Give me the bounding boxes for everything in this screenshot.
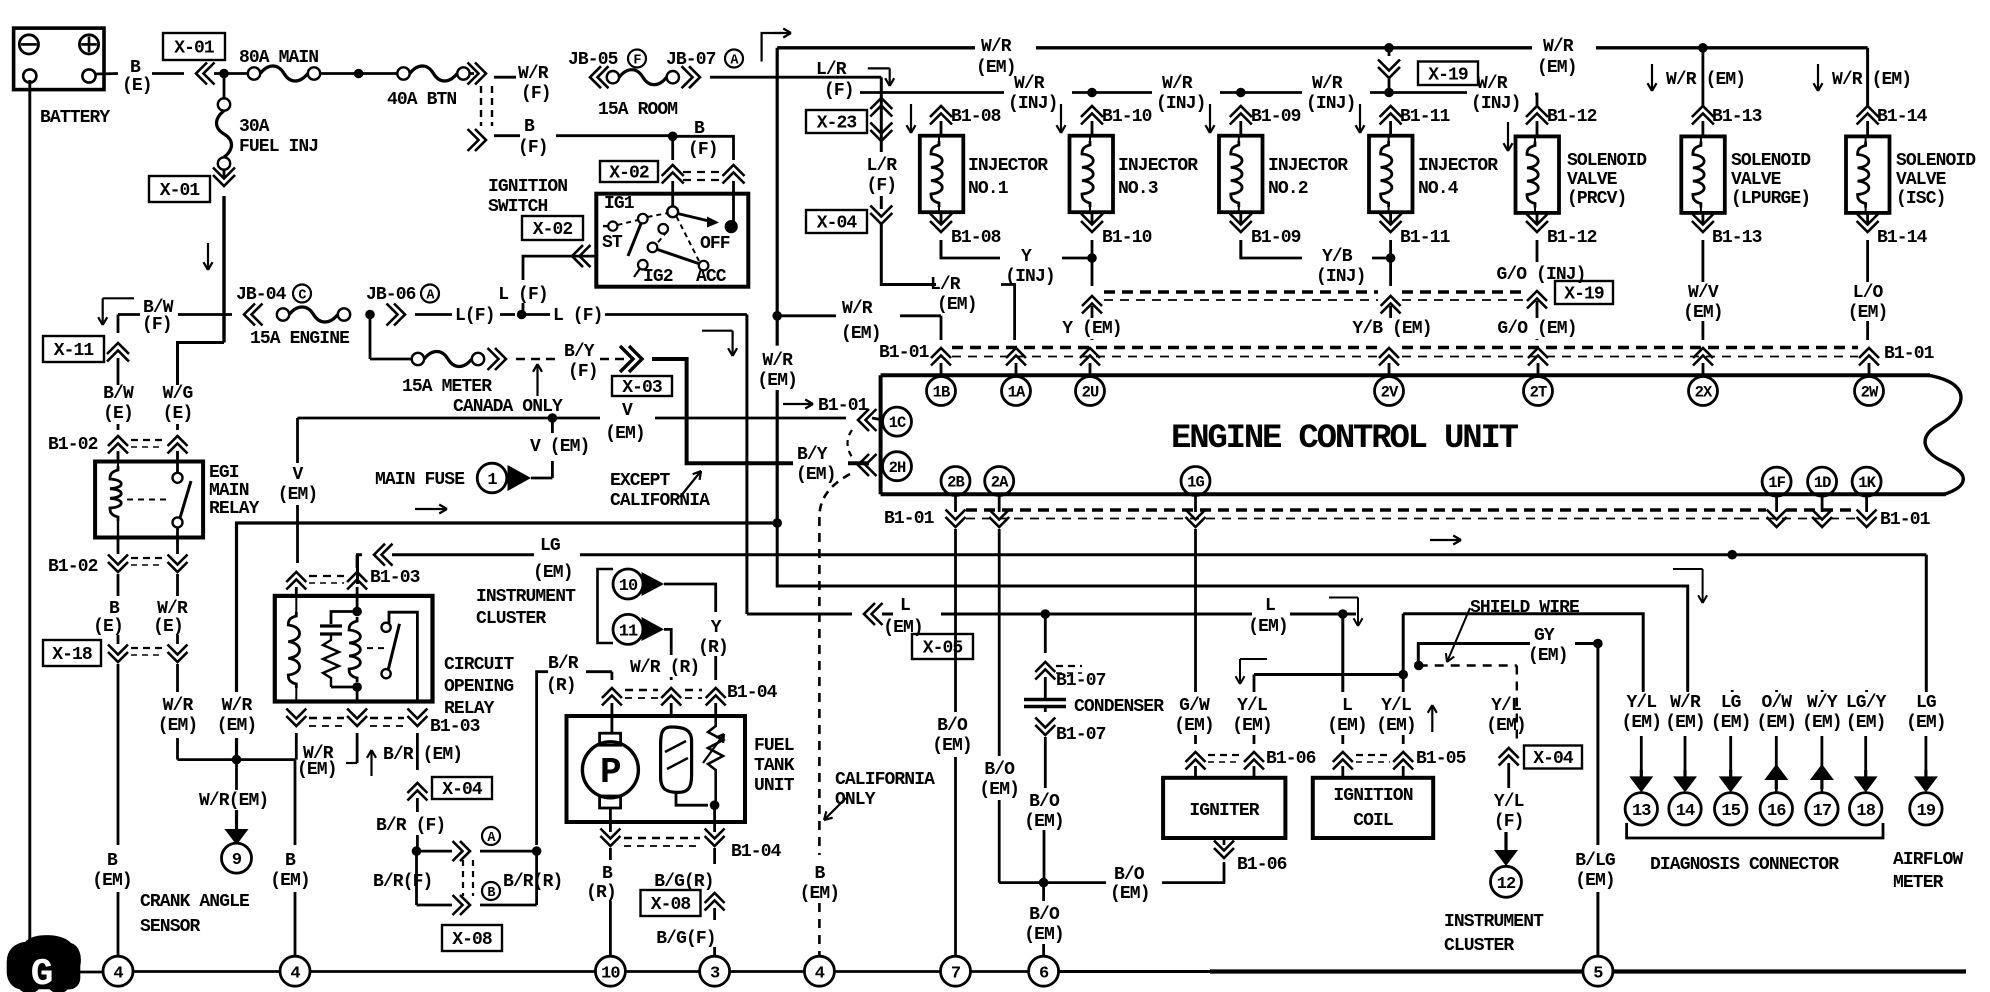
- switch OFF position: [707, 217, 719, 228]
- connector chevron B1-01 top pin: [1528, 348, 1548, 358]
- svg-text:(F): (F): [518, 138, 548, 158]
- crank angle sensor circle 9: [222, 843, 252, 873]
- svg-text:O/W: O/W: [1761, 693, 1792, 713]
- pin 1D: [1808, 467, 1837, 496]
- wire B/O to circle 6: [1042, 883, 1045, 901]
- connector X-08 left: [442, 925, 502, 951]
- wire relay to ground 4: [294, 760, 297, 845]
- svg-text:(EM): (EM): [1756, 713, 1796, 733]
- svg-text:(EM): (EM): [1174, 716, 1214, 736]
- svg-text:B1-09: B1-09: [1251, 107, 1301, 127]
- dashed shield wire: [1419, 664, 1517, 666]
- svg-text:(EM): (EM): [757, 371, 797, 391]
- diagnosis circle 19: [1910, 793, 1942, 825]
- wire B(E): [117, 574, 120, 596]
- svg-text:W/R: W/R: [1312, 74, 1343, 94]
- svg-text:B/W: B/W: [103, 384, 134, 404]
- svg-text:X-23: X-23: [817, 114, 857, 134]
- svg-text:MAIN: MAIN: [209, 481, 249, 501]
- wire L(EM) bus: [747, 613, 852, 616]
- svg-text:L(F): L(F): [455, 306, 495, 326]
- svg-text:LG: LG: [1916, 693, 1936, 713]
- wire Y(EM) to 2U: [1091, 258, 1094, 286]
- wire B/R lower to connector B: [415, 851, 418, 905]
- wire to diagnosis pin 13: [1642, 690, 1645, 692]
- svg-text:Y/B (EM): Y/B (EM): [1352, 319, 1431, 339]
- svg-text:15A METER: 15A METER: [402, 377, 492, 397]
- svg-text:F: F: [633, 54, 641, 69]
- wire Y(R): [664, 584, 716, 612]
- wire W/R(EM) to 1B: [777, 314, 836, 317]
- svg-text:B/R (EM): B/R (EM): [383, 745, 462, 765]
- pin 1C: [883, 407, 912, 436]
- connector arrow to 9: [235, 810, 238, 830]
- wire B/LG(EM) to circle 5: [1596, 644, 1599, 846]
- svg-text:FUEL INJ: FUEL INJ: [239, 137, 318, 157]
- wire Y(INJ) bus: [941, 240, 1000, 258]
- node W/R bus split: [772, 518, 782, 528]
- svg-text:Y: Y: [1021, 247, 1032, 267]
- svg-text:(EM): (EM): [1024, 812, 1064, 832]
- node LG to diagnosis 15: [1727, 550, 1737, 560]
- svg-text:X-11: X-11: [54, 341, 95, 361]
- svg-text:B1-14: B1-14: [1877, 228, 1928, 248]
- diagnosis circle 13: [1625, 793, 1657, 825]
- svg-text:(EM): (EM): [1665, 713, 1705, 733]
- svg-text:B/R(R): B/R(R): [503, 872, 562, 892]
- relay coil 2: [349, 617, 360, 682]
- connector chevron B1-01 top pin: [1859, 348, 1879, 358]
- connector chevron B1-01 top pin: [1006, 348, 1026, 358]
- svg-text:W/R: W/R: [1162, 74, 1193, 94]
- svg-text:W/R: W/R: [1670, 693, 1701, 713]
- fuel level sender: [661, 727, 692, 792]
- connector chevron B1-01 top pin: [931, 348, 951, 358]
- node Y junction: [1087, 253, 1097, 263]
- svg-text:X-03: X-03: [622, 378, 662, 398]
- svg-text:CALIFORNIA: CALIFORNIA: [835, 770, 935, 790]
- wire L/R(F) X-23 column: [880, 77, 883, 152]
- svg-text:(F): (F): [521, 84, 551, 104]
- svg-text:NO.1: NO.1: [968, 179, 1009, 199]
- svg-text:EXCEPT: EXCEPT: [610, 471, 671, 491]
- connector chevron 1C: [858, 409, 869, 431]
- svg-text:W/R: W/R: [157, 599, 188, 619]
- ground circle 10: [595, 956, 625, 986]
- connector chevron: [244, 304, 255, 326]
- svg-text:40A BTN: 40A BTN: [387, 90, 456, 110]
- svg-text:B/O: B/O: [937, 716, 968, 736]
- wire W/R(E): [176, 574, 179, 596]
- wire 30A fuel inj down to EGI W/G: [222, 196, 225, 343]
- svg-text:B1-11: B1-11: [1400, 107, 1451, 127]
- ground bus wire: [80, 971, 102, 974]
- wire L/R(EM) to pin 1A: [881, 224, 936, 285]
- relay switch: [382, 623, 391, 632]
- connector chevron B1 bottom B1-09: [1239, 212, 1242, 225]
- svg-text:B/Y: B/Y: [797, 445, 828, 465]
- svg-text:Y: Y: [711, 618, 722, 638]
- ground circle 4 a: [103, 956, 133, 986]
- svg-text:IGNITION: IGNITION: [488, 177, 567, 197]
- arrow up Y/L: [1431, 705, 1433, 732]
- svg-text:G/W: G/W: [1179, 696, 1210, 716]
- svg-text:Y/L: Y/L: [1626, 693, 1656, 713]
- svg-text:B/O: B/O: [1114, 865, 1145, 885]
- svg-text:(EM): (EM): [92, 871, 132, 891]
- svg-text:30A: 30A: [239, 117, 270, 137]
- svg-text:(INJ): (INJ): [1156, 94, 1206, 114]
- svg-text:W/R (R): W/R (R): [630, 658, 699, 678]
- connector chevrons B1-06 top: [1186, 752, 1206, 762]
- connector chevron B1-01 bottom pin: [1186, 517, 1206, 527]
- svg-text:W/R(EM): W/R(EM): [199, 791, 268, 811]
- connector chevron B1 top B1-11: [1380, 106, 1402, 117]
- svg-text:(EM): (EM): [1575, 871, 1615, 891]
- connector circle 11: [613, 614, 643, 644]
- arrow hook right bus: [1673, 568, 1703, 570]
- svg-text:SOLENOID: SOLENOID: [1731, 151, 1811, 171]
- switch ST terminal: [608, 222, 617, 231]
- igniter box: [1163, 778, 1285, 838]
- svg-text:VALVE: VALVE: [1567, 170, 1618, 190]
- connector X-23: [806, 110, 867, 133]
- svg-text:W/G: W/G: [163, 384, 193, 404]
- svg-text:INJECTOR: INJECTOR: [1418, 156, 1498, 176]
- svg-text:FUEL: FUEL: [754, 736, 794, 756]
- svg-text:(EM): (EM): [976, 58, 1016, 78]
- pin 2A: [985, 467, 1014, 496]
- svg-text:1F: 1F: [1768, 474, 1785, 492]
- svg-text:(EM): (EM): [1906, 713, 1946, 733]
- dashed california branch from 2H: [819, 474, 850, 517]
- svg-text:19: 19: [1917, 802, 1936, 821]
- svg-text:B/R (F): B/R (F): [376, 816, 445, 836]
- svg-text:W/Y: W/Y: [1807, 693, 1838, 713]
- node X-19 branch: [1384, 43, 1394, 53]
- svg-text:CRANK ANGLE: CRANK ANGLE: [140, 892, 250, 912]
- wire W/R(EM) relay middle down: [356, 733, 359, 763]
- svg-text:1K: 1K: [1858, 474, 1876, 492]
- node W/R junction at L/F line: [772, 311, 782, 321]
- connector chevron B1-01 top pin: [1693, 348, 1713, 358]
- node B/R junction right: [532, 846, 542, 856]
- connector arrow diagnosis 16: [1775, 779, 1778, 789]
- svg-text:W/R: W/R: [762, 351, 793, 371]
- dashed wire B(EM) california only: [818, 517, 821, 855]
- svg-text:B1-12: B1-12: [1547, 228, 1597, 248]
- svg-text:(INJ): (INJ): [1471, 94, 1521, 114]
- arrow continuation hook L/R: [868, 67, 890, 69]
- svg-text:G: G: [31, 953, 54, 992]
- node GY junction: [1593, 639, 1603, 649]
- switch lower-left contact: [638, 260, 648, 270]
- svg-text:Y (EM): Y (EM): [1062, 319, 1121, 339]
- diagnosis circle 15: [1715, 793, 1747, 825]
- svg-text:2X: 2X: [1695, 384, 1713, 402]
- svg-text:2H: 2H: [889, 459, 906, 477]
- svg-text:B: B: [107, 851, 118, 871]
- svg-text:INSTRUMENT: INSTRUMENT: [1444, 912, 1544, 932]
- EGI main relay box: [95, 462, 203, 538]
- pin 1F: [1762, 467, 1791, 496]
- svg-text:GY: GY: [1534, 626, 1555, 646]
- svg-text:B: B: [130, 58, 141, 78]
- node B/R junction A: [412, 846, 422, 856]
- svg-text:(F): (F): [568, 362, 598, 382]
- connector X-11: [43, 336, 104, 362]
- switch blade ST: [628, 224, 641, 257]
- fuse 15A ROOM: [607, 71, 619, 83]
- svg-text:(ISC): (ISC): [1896, 189, 1946, 209]
- connector chevron B1-01 bottom pin: [1857, 517, 1877, 527]
- svg-text:L/R: L/R: [930, 275, 961, 295]
- svg-text:(F): (F): [142, 315, 172, 335]
- pin 2B: [941, 467, 970, 496]
- connector X-19 lower: [1527, 291, 1547, 301]
- svg-text:B1-01: B1-01: [1884, 344, 1935, 364]
- wire B(EM) to ground 4: [117, 664, 120, 845]
- wire LG down to pin 19: [1925, 555, 1928, 690]
- svg-text:VALVE: VALVE: [1896, 170, 1947, 190]
- svg-text:B1-11: B1-11: [1400, 228, 1451, 248]
- svg-text:(EM): (EM): [1248, 617, 1288, 637]
- svg-text:B: B: [109, 599, 120, 619]
- svg-text:2W: 2W: [1861, 384, 1879, 402]
- svg-text:LG/Y: LG/Y: [1846, 693, 1887, 713]
- wire B/O(EM) igniter horizontal: [1044, 881, 1106, 884]
- connector arrow diagnosis 19: [1924, 770, 1927, 777]
- node shield junction: [1414, 661, 1424, 671]
- svg-text:X-18: X-18: [52, 645, 92, 665]
- injector NO.1 box: [920, 136, 964, 213]
- svg-text:B/LG: B/LG: [1575, 851, 1615, 871]
- svg-text:(EM): (EM): [1848, 303, 1888, 323]
- wire 2A to junction B/O(EM): [998, 529, 1001, 756]
- node B(F) junction: [668, 132, 678, 142]
- svg-text:X-08: X-08: [651, 895, 691, 915]
- svg-text:CANADA ONLY: CANADA ONLY: [453, 397, 563, 417]
- svg-text:80A MAIN: 80A MAIN: [239, 48, 318, 68]
- svg-text:W/R: W/R: [1477, 74, 1508, 94]
- svg-text:COIL: COIL: [1353, 811, 1393, 831]
- wire B(R) to circle 10: [609, 848, 612, 860]
- svg-text:(INJ): (INJ): [1306, 94, 1356, 114]
- wire V(EM) vertical through bus: [296, 418, 299, 463]
- svg-text:W/R: W/R: [981, 37, 1012, 57]
- injector NO.2 box: [1219, 136, 1263, 213]
- svg-text:1C: 1C: [889, 414, 906, 432]
- svg-text:METER: METER: [1893, 873, 1944, 893]
- wire 2B to circle 7 B/O(EM): [954, 529, 957, 712]
- svg-text:(R): (R): [586, 883, 616, 903]
- wire B/R(R) from A junction: [537, 672, 548, 845]
- svg-text:(EM): (EM): [278, 485, 318, 505]
- svg-text:B1-01: B1-01: [884, 509, 935, 529]
- svg-text:(EM): (EM): [297, 760, 337, 780]
- down arrow inj4: [1359, 104, 1361, 133]
- wire B/Y(F) dashed: [516, 358, 560, 361]
- node injector2 junction: [1236, 88, 1246, 98]
- diagnosis circle 14: [1669, 793, 1701, 825]
- connector bold chevron except-california: [629, 346, 642, 372]
- wire B/G(R): [713, 848, 716, 864]
- svg-text:B1-01: B1-01: [879, 343, 930, 363]
- arrow hook Y/L igniter: [1240, 658, 1267, 660]
- node L(F) junction: [517, 310, 527, 320]
- wire W/R(EM) bus middle: [237, 523, 778, 692]
- wire V(EM) main: [0, 0, 1, 1]
- wire B(F) to switch: [671, 136, 674, 160]
- svg-text:13: 13: [1632, 802, 1651, 821]
- svg-text:NO.2: NO.2: [1268, 179, 1308, 199]
- connector X-04 B/R: [407, 783, 427, 793]
- svg-text:(E): (E): [163, 404, 193, 424]
- svg-text:(E): (E): [103, 404, 133, 424]
- svg-text:INJECTOR: INJECTOR: [1268, 156, 1348, 176]
- wire B(F) from X-01: [494, 134, 520, 137]
- fuel tank unit box: [567, 716, 746, 822]
- svg-text:14: 14: [1676, 802, 1695, 821]
- svg-text:L/O: L/O: [1853, 283, 1884, 303]
- wire B/Y thick to 2H: [652, 359, 793, 463]
- svg-text:ACC: ACC: [696, 267, 727, 287]
- svg-text:B1-04: B1-04: [727, 683, 778, 703]
- svg-text:W/R: W/R: [1543, 37, 1574, 57]
- svg-text:CLUSTER: CLUSTER: [1444, 936, 1514, 956]
- wire Y/L(EM) igniter: [1253, 675, 1256, 693]
- svg-text:B1-06: B1-06: [1266, 749, 1316, 769]
- svg-text:(EM): (EM): [1232, 716, 1272, 736]
- switch IG2 terminal: [648, 243, 658, 253]
- arrow hook continuation near L(F) corner: [702, 330, 733, 332]
- wire to diagnosis pin 17: [1821, 690, 1824, 692]
- connector chevron B1 bottom B1-11: [1389, 212, 1392, 225]
- svg-text:1D: 1D: [1814, 474, 1831, 492]
- svg-text:CLUSTER: CLUSTER: [476, 609, 546, 629]
- svg-text:NO.3: NO.3: [1118, 179, 1158, 199]
- svg-text:B1-05: B1-05: [1416, 749, 1466, 769]
- pin 2T: [1524, 377, 1553, 406]
- svg-text:B1-01: B1-01: [1880, 510, 1931, 530]
- svg-text:W/R: W/R: [222, 696, 253, 716]
- svg-text:P: P: [600, 752, 621, 793]
- pin 2X: [1689, 377, 1718, 406]
- svg-text:B1-01: B1-01: [818, 396, 869, 416]
- svg-text:MAIN FUSE: MAIN FUSE: [375, 470, 465, 490]
- wire crank angle sensor: [235, 760, 238, 790]
- svg-text:6: 6: [1039, 964, 1049, 983]
- connector A: [417, 850, 453, 853]
- svg-text:IGNITION: IGNITION: [1333, 786, 1412, 806]
- svg-text:(R): (R): [698, 638, 728, 658]
- svg-text:4: 4: [290, 964, 300, 983]
- svg-text:X-08: X-08: [452, 930, 492, 950]
- wire B/W(F): [118, 313, 140, 316]
- svg-text:B: B: [602, 864, 613, 884]
- ground circle 6: [1029, 956, 1059, 986]
- svg-text:B/G(F): B/G(F): [656, 929, 715, 949]
- svg-text:INJECTOR: INJECTOR: [968, 156, 1048, 176]
- svg-text:15A ROOM: 15A ROOM: [598, 100, 677, 120]
- svg-text:(F): (F): [866, 176, 896, 196]
- solenoid valve PRCV: [1526, 106, 1548, 117]
- wire W/R(R): [664, 629, 671, 655]
- connector chevron B1-01 top pin: [1379, 348, 1399, 358]
- svg-text:2U: 2U: [1082, 384, 1099, 402]
- connector chevron B1 top B1-09: [1230, 106, 1252, 117]
- connector X-19 top: [1418, 62, 1478, 86]
- svg-text:B1-02: B1-02: [48, 435, 98, 455]
- svg-text:L/R: L/R: [866, 156, 897, 176]
- switch blade IG2-ACC: [656, 249, 700, 264]
- svg-text:AIRFLOW: AIRFLOW: [1893, 850, 1963, 870]
- svg-text:(EM): (EM): [1486, 716, 1526, 736]
- connector arrow diagnosis 15: [1729, 770, 1732, 777]
- wire B/R(EM) relay right down: [416, 733, 419, 770]
- node LPURGE branch: [1698, 43, 1708, 53]
- node injector3 junction: [1087, 88, 1097, 98]
- svg-text:(EM): (EM): [841, 324, 881, 344]
- svg-text:(EM): (EM): [1327, 716, 1367, 736]
- svg-text:JB-06: JB-06: [366, 285, 416, 305]
- node JB junction: [365, 310, 375, 320]
- svg-text:1: 1: [487, 471, 497, 490]
- svg-text:Y/L: Y/L: [1237, 696, 1267, 716]
- connector arrow diagnosis 14: [1683, 770, 1686, 777]
- svg-text:15A ENGINE: 15A ENGINE: [250, 329, 350, 349]
- svg-text:B/R(F): B/R(F): [373, 872, 432, 892]
- solenoid valve LPURGE: [1692, 106, 1714, 117]
- ground symbol G: [8, 936, 80, 991]
- svg-text:G/O (EM): G/O (EM): [1497, 319, 1576, 339]
- svg-text:(F): (F): [824, 81, 854, 101]
- svg-text:X-02: X-02: [533, 220, 573, 240]
- svg-text:UNIT: UNIT: [754, 776, 795, 796]
- node B/O junction: [1039, 878, 1049, 888]
- arrow B1-01 at 1C: [783, 403, 813, 405]
- switch link dashed: [618, 220, 639, 225]
- wire Y/L(EM) to diagnosis 13: [1402, 614, 1405, 676]
- down arrow inj3: [1060, 104, 1062, 133]
- svg-text:ST: ST: [602, 233, 623, 253]
- ground circle 3: [700, 956, 730, 986]
- main fuse circle 1: [477, 463, 507, 493]
- svg-text:B1-03: B1-03: [370, 568, 420, 588]
- svg-text:B1-02: B1-02: [48, 557, 98, 577]
- svg-text:X-04: X-04: [817, 214, 858, 234]
- svg-text:IG1: IG1: [604, 194, 635, 214]
- svg-text:4: 4: [815, 964, 825, 983]
- svg-text:B/O: B/O: [984, 760, 1015, 780]
- svg-text:B1-08: B1-08: [951, 228, 1001, 248]
- relay capacitor and resistor: [331, 612, 357, 625]
- svg-text:CIRCUIT: CIRCUIT: [444, 655, 514, 675]
- diagnosis circle 18: [1850, 793, 1882, 825]
- circuit opening relay box: [275, 596, 433, 702]
- svg-text:V: V: [622, 401, 633, 421]
- pin 1K: [1852, 467, 1881, 496]
- connector X-02 left: [522, 216, 583, 240]
- svg-text:16: 16: [1767, 802, 1786, 821]
- engine control unit box: [1925, 375, 1963, 494]
- svg-text:B/Y: B/Y: [564, 342, 595, 362]
- connector chevrons B1-04 bottom: [609, 822, 612, 832]
- wire Y/L bus igniter-coil: [1254, 673, 1403, 676]
- relay middle wire: [356, 596, 359, 612]
- EGI relay coil: [110, 466, 121, 521]
- connector chevron B1-07 bottom: [1044, 707, 1047, 713]
